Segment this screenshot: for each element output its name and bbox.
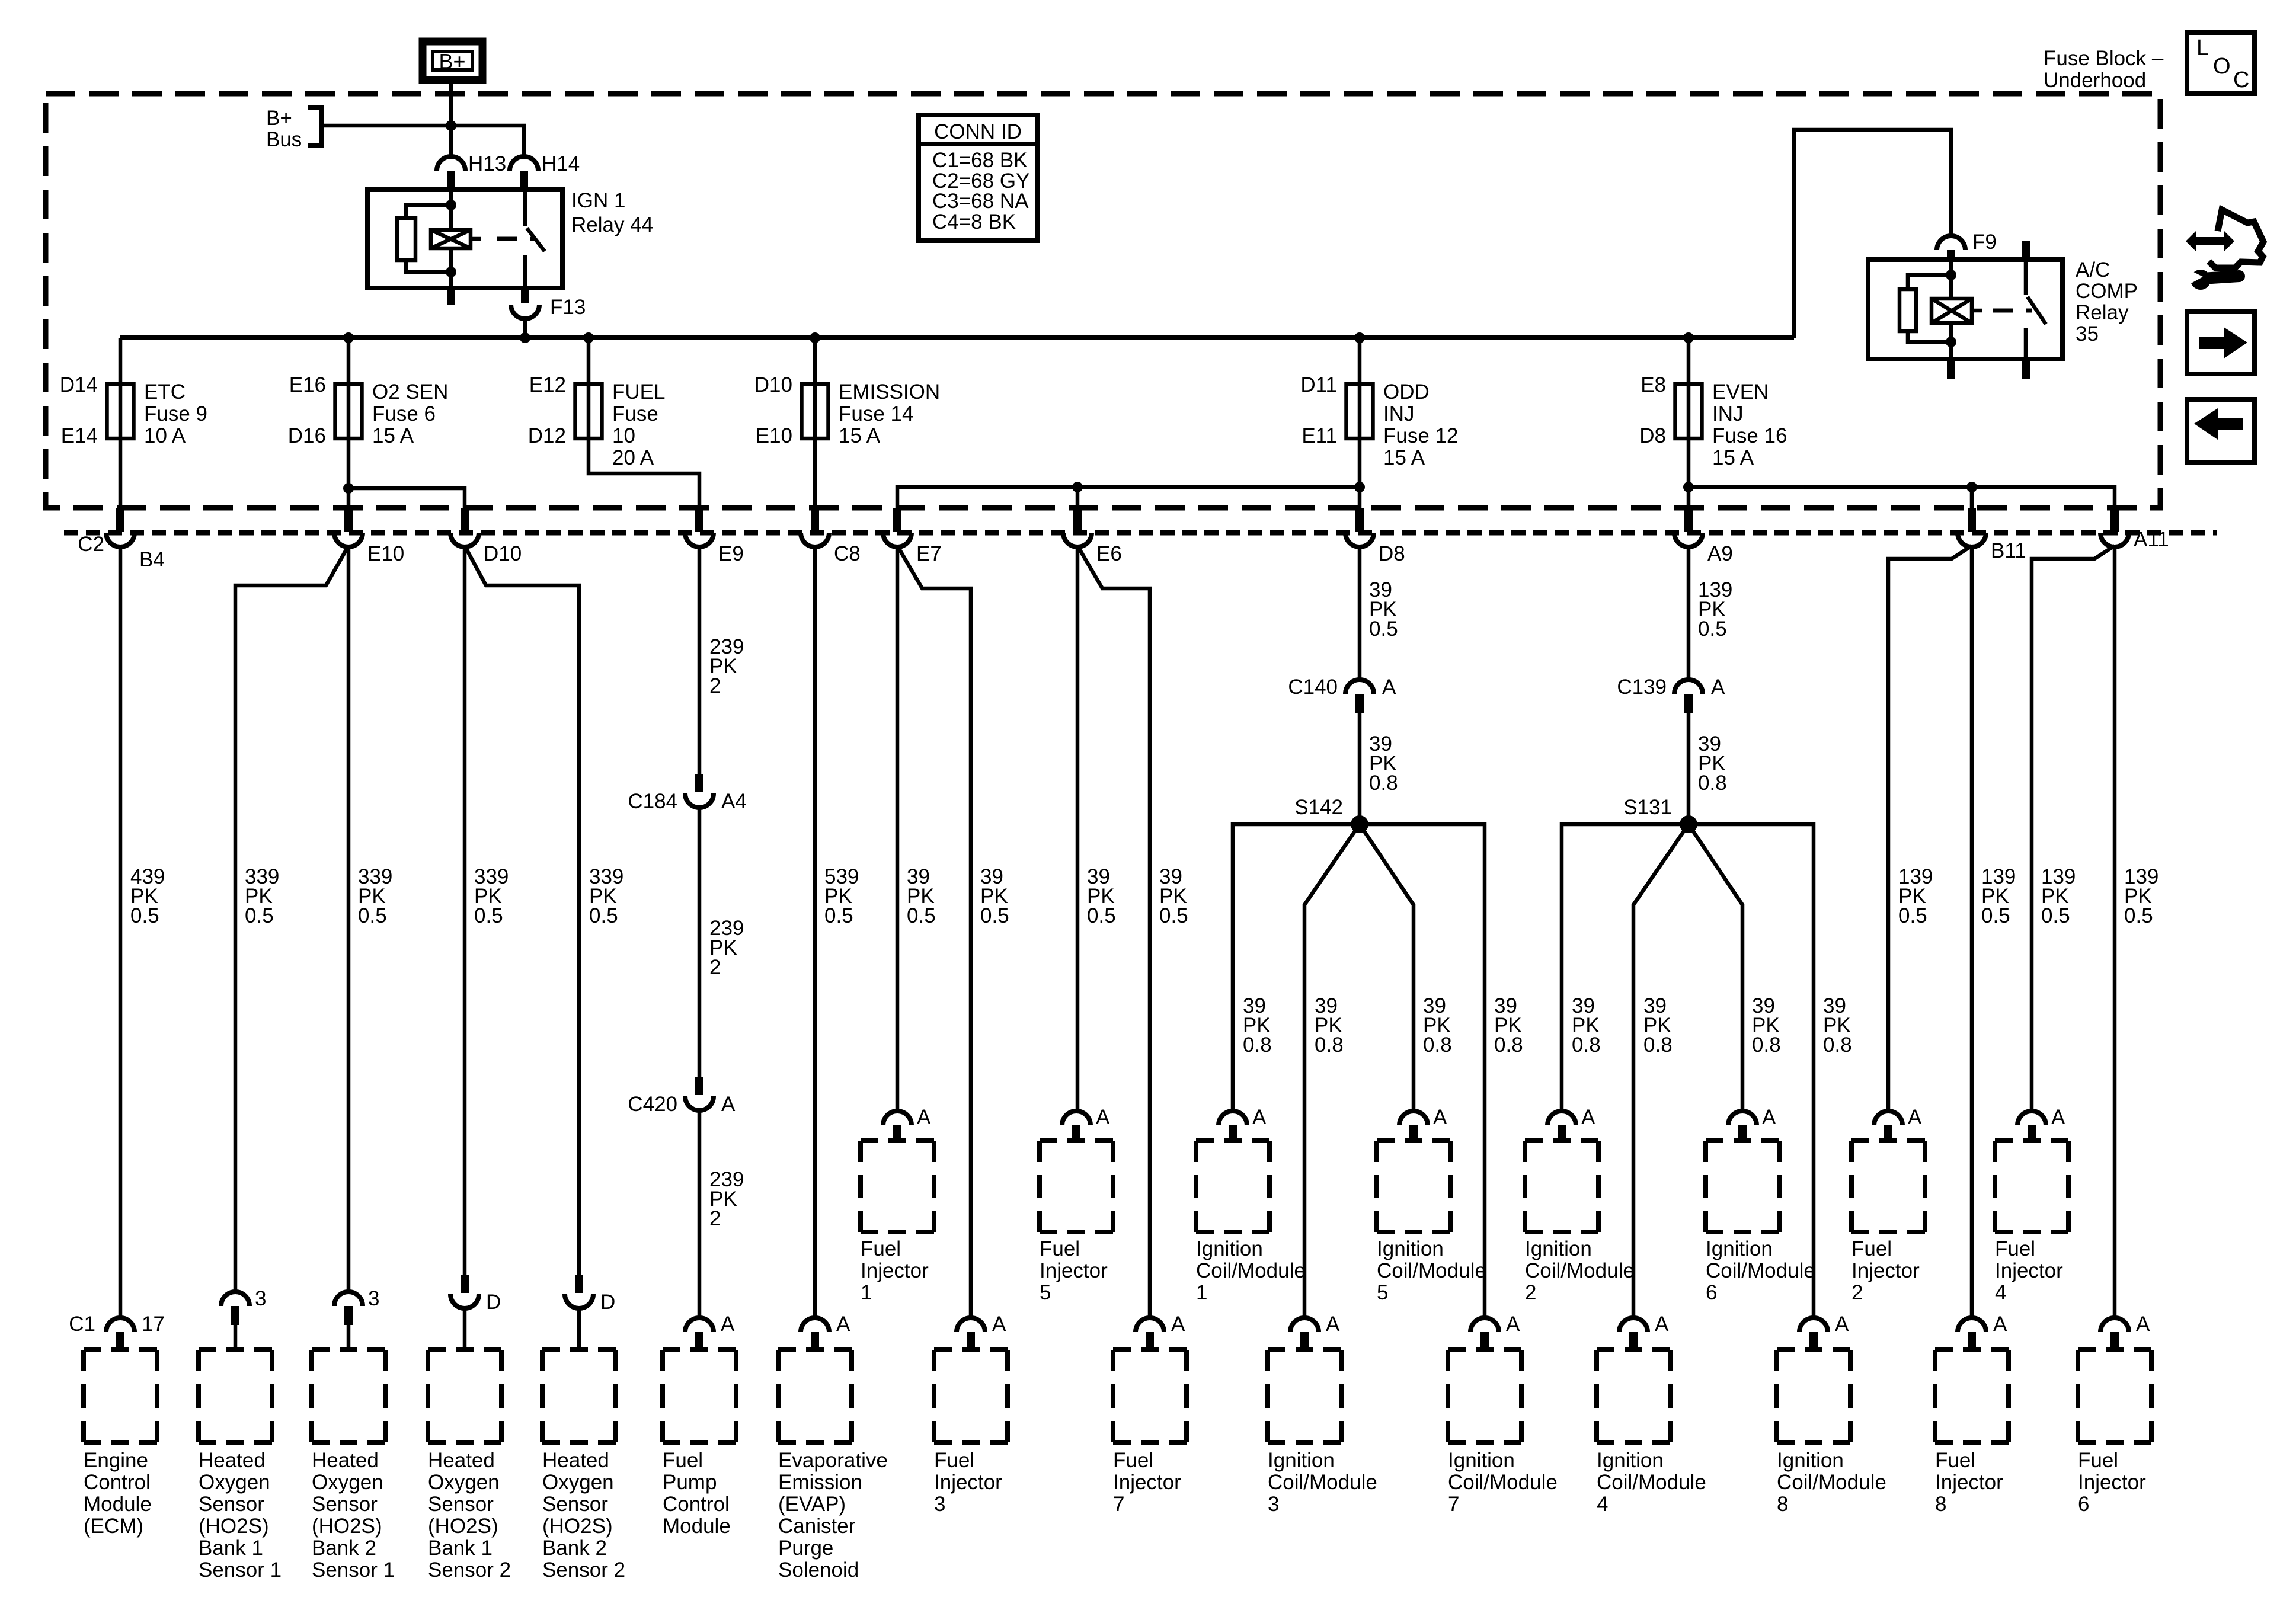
node ODD INJ branch [1354,482,1365,492]
svg-text:A9: A9 [1707,542,1733,565]
svg-text:E12: E12 [529,373,566,396]
relay A/C mechanical link dashes [1993,309,2032,313]
wire E7 branch to fuel injector 3 [897,546,971,1319]
node B11 tap [1966,482,1977,492]
node bus FUEL [583,332,594,343]
svg-text:0.5: 0.5 [2124,904,2153,927]
wire S131 to ignition coil module 4 [1633,824,1689,1319]
component Fuel Injector 8 [1935,1350,2009,1516]
svg-text:Ignition: Ignition [1597,1449,1664,1472]
relay coil element [431,230,481,248]
svg-text:B4: B4 [139,548,165,571]
svg-text:Heated: Heated [312,1449,379,1472]
svg-text:0.8: 0.8 [1572,1033,1601,1057]
wire E6 branch to fuel injector 7 [1077,546,1150,1319]
svg-text:Injector: Injector [1935,1471,2003,1494]
svg-text:Coil/Module: Coil/Module [1377,1259,1486,1282]
svg-text:3: 3 [368,1287,379,1310]
connector pin A Fuel Injector 8 [1958,1313,2007,1349]
svg-text:0.8: 0.8 [1823,1033,1852,1057]
wire A11 to fuel injector 6 [2113,546,2117,1319]
CONN ID legend table [919,115,1038,241]
component Fuel Injector 5 [1040,1141,1113,1304]
relay switch [525,190,545,288]
component Ignition Coil/Module 8 [1777,1350,1886,1516]
wire C184 to C420 [698,806,702,1077]
connector pin D8 [1345,508,1405,565]
component Ignition Coil/Module 1 [1196,1141,1306,1304]
wire C8 to EVAP solenoid [813,546,817,1319]
component Engine Control Module [84,1350,157,1538]
svg-text:2: 2 [1851,1281,1863,1304]
svg-text:IGN 1: IGN 1 [571,189,625,212]
svg-text:6: 6 [1706,1281,1717,1304]
svg-text:A: A [2051,1106,2065,1129]
svg-text:5: 5 [1377,1281,1388,1304]
svg-text:(ECM): (ECM) [84,1515,143,1538]
wire A9 to C139 [1687,546,1691,681]
relay A/C switch [2026,260,2046,359]
wire bus to fuse O2 SEN Fuse 6 [347,338,351,384]
wire S131 to ignition coil module 8 [1689,824,1814,1319]
svg-text:E7: E7 [916,542,942,565]
svg-text:Bank 2: Bank 2 [542,1537,607,1560]
svg-text:6: 6 [2078,1493,2089,1516]
svg-text:Injector: Injector [934,1471,1002,1494]
node O2 SEN branch [343,483,354,494]
wire C139 to splice S131 [1687,713,1691,824]
svg-text:Pump: Pump [663,1471,717,1494]
svg-text:Sensor 2: Sensor 2 [542,1558,625,1582]
connector H13 [437,152,506,190]
svg-text:0.5: 0.5 [1087,904,1116,927]
svg-text:C8: C8 [834,542,861,565]
connector pin A Fuel Injector 5 [1062,1106,1110,1141]
node A/C coil top [1946,270,1956,280]
wire bus to fuse EMISSION Fuse 14 [813,338,817,384]
svg-text:Emission: Emission [778,1471,862,1494]
relay mechanical link dashes [497,237,536,241]
component Ignition Coil/Module 2 [1525,1141,1635,1304]
svg-text:Sensor: Sensor [428,1493,494,1516]
svg-text:0.5: 0.5 [245,904,274,927]
svg-text:A: A [1506,1313,1520,1336]
svg-text:EMISSION: EMISSION [839,380,940,404]
wire FUEL fuse to E9 [589,438,699,510]
node A/C coil bottom [1946,337,1956,347]
svg-text:Bank 1: Bank 1 [428,1537,493,1560]
relay A/C switch top pin stub [2022,241,2030,260]
connector pin A Fuel Pump Control Module [685,1313,735,1349]
svg-text:(HO2S): (HO2S) [428,1515,498,1538]
svg-text:Oxygen: Oxygen [199,1471,270,1494]
node E6 tap [1072,482,1083,492]
wire S142 to ignition coil module 1 [1233,824,1360,1112]
svg-text:A4: A4 [721,790,747,813]
svg-text:C1=68 BK: C1=68 BK [932,149,1028,172]
svg-text:0.8: 0.8 [1698,772,1727,795]
svg-text:15 A: 15 A [372,424,414,447]
svg-text:0.5: 0.5 [589,904,618,927]
wire S131 to ignition coil module 2 [1562,824,1689,1112]
connector pin A Ignition Coil/Module 4 [1619,1313,1669,1349]
connector pin E9 [685,508,744,565]
fuse EVEN INJ Fuse 16 [1639,373,1787,469]
connector F9 [1937,231,1997,261]
svg-text:C2: C2 [78,533,104,556]
svg-text:Injector: Injector [1995,1259,2063,1282]
svg-text:0.8: 0.8 [1315,1033,1344,1057]
wire B11 branch to fuel injector 2 [1888,546,1972,1112]
svg-text:Fuse 9: Fuse 9 [144,402,207,425]
svg-text:0.8: 0.8 [1423,1033,1452,1057]
svg-text:Fuse Block –: Fuse Block – [2044,47,2164,70]
svg-text:(HO2S): (HO2S) [542,1515,613,1538]
svg-text:L: L [2196,36,2209,60]
svg-text:3: 3 [1268,1493,1279,1516]
B+ power feed box [423,41,482,80]
svg-text:Evaporative: Evaporative [778,1449,888,1472]
connector pin E6 [1063,508,1122,565]
svg-text:2: 2 [709,956,721,979]
wire bus to fuse EVEN INJ Fuse 16 [1687,338,1691,384]
svg-text:Solenoid: Solenoid [778,1558,859,1582]
node relay coil top [446,200,456,210]
svg-text:Purge: Purge [778,1537,833,1560]
svg-text:Injector: Injector [2078,1471,2146,1494]
svg-text:Coil/Module: Coil/Module [1268,1471,1377,1494]
svg-text:Sensor: Sensor [312,1493,378,1516]
svg-text:INJ: INJ [1712,402,1744,425]
svg-text:Heated: Heated [542,1449,609,1472]
svg-text:8: 8 [1777,1493,1788,1516]
relay A/C COMP Relay 35 box [1868,258,2138,359]
svg-text:C184: C184 [628,790,677,813]
wire bus to fuse ODD INJ Fuse 12 [1358,338,1362,384]
component Ignition Coil/Module 6 [1706,1141,1815,1304]
svg-text:15 A: 15 A [1712,446,1754,469]
svg-text:Fuse 6: Fuse 6 [372,402,436,425]
svg-text:Sensor: Sensor [542,1493,608,1516]
wire S142 to ignition coil module 5 [1360,824,1414,1112]
svg-text:3: 3 [255,1287,266,1310]
connector pin A9 [1674,508,1733,565]
svg-text:5: 5 [1040,1281,1051,1304]
connector H14 [510,152,580,190]
svg-text:A: A [1835,1313,1849,1336]
connector pin A Fuel Injector 7 [1136,1313,1185,1349]
svg-text:Ignition: Ignition [1448,1449,1515,1472]
svg-text:4: 4 [1995,1281,2006,1304]
wire C420 to fuel pump control module [698,1109,702,1319]
svg-text:A: A [1433,1106,1447,1129]
connector pin C8 [801,508,861,565]
connector F13 [511,296,586,319]
svg-text:B+: B+ [439,49,465,73]
svg-text:EVEN: EVEN [1712,380,1769,404]
svg-text:Fuel: Fuel [1935,1449,1975,1472]
component HO2S bank1 sensor2 [428,1350,511,1582]
fuse ODD INJ Fuse 12 [1300,373,1458,469]
svg-text:D10: D10 [484,542,522,565]
svg-text:A: A [721,1093,736,1116]
svg-text:7: 7 [1448,1493,1459,1516]
svg-text:ODD: ODD [1383,380,1430,404]
svg-text:A: A [1382,676,1396,699]
svg-text:COMP: COMP [2076,280,2138,303]
svg-text:INJ: INJ [1383,402,1415,425]
svg-text:Fuse 14: Fuse 14 [839,402,913,425]
right arrow navigation box [2187,312,2255,374]
svg-text:E9: E9 [718,542,744,565]
wire E10 to HO2S bank2 sensor1 [347,546,351,1293]
svg-text:10: 10 [612,424,635,447]
svg-text:Underhood: Underhood [2044,69,2146,92]
svg-text:S131: S131 [1623,796,1672,819]
fuse O2 SEN Fuse 6 [288,373,449,447]
connector pin A Fuel Injector 2 [1874,1106,1922,1141]
svg-text:17: 17 [142,1313,165,1336]
wire E10 branch to HO2S bank1 sensor1 [235,546,348,1293]
connector pin A Fuel Injector 4 [2017,1106,2065,1141]
component HO2S bank1 sensor1 [199,1350,282,1582]
wire ETC fuse to C2/B4 [119,438,123,510]
connector D HO2S bank2 sensor2 [565,1275,615,1350]
svg-text:A: A [1762,1106,1776,1129]
resistor relay IGN1 internal [397,205,451,272]
svg-text:Ignition: Ignition [1196,1237,1263,1260]
wire E7 to fuel injector 1 [896,546,900,1112]
ECM harness connector dotted line [64,530,2217,536]
wire ODD INJ fuse to D8 [1358,438,1362,510]
svg-text:0.8: 0.8 [1752,1033,1781,1057]
component Fuel Injector 7 [1113,1350,1187,1516]
splice S142 [1294,796,1368,833]
svg-text:0.5: 0.5 [358,904,387,927]
svg-text:F13: F13 [550,296,586,319]
svg-text:D: D [600,1291,615,1314]
svg-text:35: 35 [2076,322,2099,345]
connector pin A EVAP canister purge solenoid [801,1313,850,1349]
connector pin B4 [78,508,165,571]
svg-text:0.5: 0.5 [907,904,936,927]
svg-text:0.8: 0.8 [1494,1033,1523,1057]
svg-text:CONN ID: CONN ID [934,120,1022,143]
connector pin A Ignition Coil/Module 5 [1399,1106,1447,1141]
resistor relay A/C internal [1900,275,1951,342]
svg-text:Fuel: Fuel [861,1237,901,1260]
wire B+ to relay H13 [449,84,453,156]
svg-text:Bank 1: Bank 1 [199,1537,263,1560]
svg-text:0.5: 0.5 [1698,617,1727,641]
relay pin stub coil ground [447,288,455,305]
relay A/C coil element [1932,299,1982,323]
relay coil wire [449,190,453,288]
component HO2S bank2 sensor2 [542,1350,625,1582]
connector pin A Ignition Coil/Module 8 [1799,1313,1849,1349]
svg-text:C420: C420 [628,1093,677,1116]
svg-text:15 A: 15 A [1383,446,1425,469]
svg-text:H14: H14 [542,152,580,175]
svg-text:Module: Module [663,1515,731,1538]
svg-text:Oxygen: Oxygen [542,1471,614,1494]
svg-text:A: A [1326,1313,1340,1336]
connector pin A Fuel Injector 6 [2100,1313,2150,1349]
fuse FUEL Fuse 10 [528,373,666,469]
component Ignition Coil/Module 5 [1377,1141,1486,1304]
svg-text:0.5: 0.5 [824,904,853,927]
svg-text:FUEL: FUEL [612,380,665,404]
svg-text:0.8: 0.8 [1243,1033,1272,1057]
svg-text:D8: D8 [1379,542,1405,565]
svg-text:C140: C140 [1288,676,1338,699]
svg-text:(HO2S): (HO2S) [199,1515,269,1538]
wire D10 branch to HO2S bank2 sensor2 [465,546,579,1275]
svg-text:Heated: Heated [199,1449,266,1472]
wire S142 to ignition coil module 7 [1360,824,1485,1319]
svg-text:Bus: Bus [266,128,302,151]
svg-text:A: A [2136,1313,2150,1336]
wire EVEN INJ fuse to A9 [1687,438,1691,510]
svg-text:Fuel: Fuel [1995,1237,2035,1260]
wire D8 to C140 [1358,546,1362,681]
node EVEN INJ branch [1683,482,1694,492]
wire S131 to ignition coil module 6 [1689,824,1742,1112]
component Fuel Injector 6 [2078,1350,2151,1516]
connector C140 A [1288,676,1396,713]
wire bus to fuse FUEL Fuse 10 [587,338,591,384]
wire main ignition feed bus [120,335,1794,340]
svg-text:Oxygen: Oxygen [312,1471,383,1494]
svg-text:Fuel: Fuel [1851,1237,1892,1260]
wire O2 SEN branch to D10 [348,488,465,510]
svg-text:A: A [1993,1313,2007,1336]
svg-text:Bank 2: Bank 2 [312,1537,376,1560]
svg-text:C3=68 NA: C3=68 NA [932,190,1029,213]
fuse EMISSION Fuse 14 [754,373,940,447]
svg-text:Control: Control [84,1471,151,1494]
component Fuel Injector 4 [1995,1141,2068,1304]
wire E6 to fuel injector 5 [1076,546,1080,1112]
svg-text:0.5: 0.5 [2041,904,2070,927]
svg-text:0.5: 0.5 [1981,904,2010,927]
component Fuel Injector 3 [934,1350,1008,1516]
component Fuel Injector 2 [1851,1141,1925,1304]
svg-text:E11: E11 [1302,424,1337,447]
svg-text:Fuse: Fuse [612,402,658,425]
svg-text:Relay: Relay [2076,301,2129,324]
wire B11 to fuel injector 8 [1970,546,1974,1319]
svg-text:(EVAP): (EVAP) [778,1493,846,1516]
svg-text:Ignition: Ignition [1377,1237,1444,1260]
svg-text:2: 2 [1525,1281,1536,1304]
svg-text:0.5: 0.5 [980,904,1009,927]
svg-text:E8: E8 [1641,373,1666,396]
svg-text:D: D [486,1291,501,1314]
svg-text:Coil/Module: Coil/Module [1525,1259,1635,1282]
svg-text:Injector: Injector [1113,1471,1181,1494]
node bus EVEN INJ [1683,332,1694,343]
svg-text:Coil/Module: Coil/Module [1777,1471,1886,1494]
B+ Bus tap label and bracket [266,107,322,151]
wire S142 to ignition coil module 3 [1304,824,1360,1319]
connector pin A Fuel Injector 3 [957,1313,1006,1349]
svg-text:D12: D12 [528,424,566,447]
svg-text:Ignition: Ignition [1268,1449,1335,1472]
svg-text:Coil/Module: Coil/Module [1706,1259,1815,1282]
svg-text:A11: A11 [2134,528,2169,551]
svg-text:Coil/Module: Coil/Module [1597,1471,1706,1494]
label Fuse Block - Underhood [2044,47,2164,92]
svg-text:D10: D10 [754,373,792,396]
node bus ODD INJ [1354,332,1365,343]
svg-text:D14: D14 [60,373,98,396]
svg-text:O2 SEN: O2 SEN [372,380,448,404]
svg-text:10 A: 10 A [144,424,186,447]
svg-text:O: O [2213,54,2231,79]
svg-text:Fuel: Fuel [934,1449,974,1472]
connector C184 A4 [628,774,746,813]
svg-text:Sensor 2: Sensor 2 [428,1558,511,1582]
connector 3 HO2S bank1 sensor1 [221,1287,266,1350]
svg-text:0.5: 0.5 [1369,617,1398,641]
node relay coil bottom [446,267,456,277]
left arrow navigation box [2187,399,2255,462]
svg-text:C1: C1 [69,1313,95,1336]
wire bus to fuse ETC Fuse 9 [119,338,123,384]
svg-text:H13: H13 [468,152,506,175]
svg-text:E16: E16 [289,373,326,396]
svg-text:D16: D16 [288,424,326,447]
wire 439 PK to ECM [119,546,123,1319]
svg-text:Sensor: Sensor [199,1493,264,1516]
component Ignition Coil/Module 4 [1597,1350,1706,1516]
svg-text:3: 3 [934,1493,945,1516]
svg-text:A: A [992,1313,1006,1336]
svg-text:Ignition: Ignition [1777,1449,1844,1472]
svg-text:A: A [1655,1313,1669,1336]
component Fuel Injector 1 [861,1141,934,1304]
svg-text:Injector: Injector [1040,1259,1108,1282]
svg-text:0.8: 0.8 [1643,1033,1673,1057]
svg-text:15 A: 15 A [839,424,881,447]
relay A/C coil bottom pin stub [1947,359,1955,379]
svg-text:Injector: Injector [861,1259,929,1282]
component Ignition Coil/Module 3 [1268,1350,1377,1516]
wire bus to A/C relay jog [1794,130,1951,338]
svg-text:Coil/Module: Coil/Module [1196,1259,1306,1282]
vehicle with wrench icon [2185,210,2263,290]
component EVAP canister purge solenoid [778,1350,888,1582]
wire A11 branch to fuel injector 4 [2032,546,2115,1112]
connector D HO2S bank1 sensor2 [450,1275,501,1350]
relay A/C switch bottom pin stub [2022,359,2030,379]
svg-text:A: A [1711,676,1725,699]
connector pin A Fuel Injector 1 [883,1106,931,1141]
wire B+ bus to H14 [322,126,524,156]
svg-text:2: 2 [709,674,721,697]
svg-text:1: 1 [1196,1281,1207,1304]
relay A/C coil wire [1949,261,1953,359]
connector pin A Ignition Coil/Module 3 [1290,1313,1340,1349]
svg-text:0.8: 0.8 [1369,772,1398,795]
svg-text:Engine: Engine [84,1449,148,1472]
wire D10 to HO2S bank1 sensor2 [463,546,467,1275]
wire EMISSION fuse to C8 [813,438,817,510]
component Ignition Coil/Module 7 [1448,1350,1558,1516]
fuse block underhood dashed border [46,94,2160,508]
svg-text:C: C [2233,68,2249,92]
